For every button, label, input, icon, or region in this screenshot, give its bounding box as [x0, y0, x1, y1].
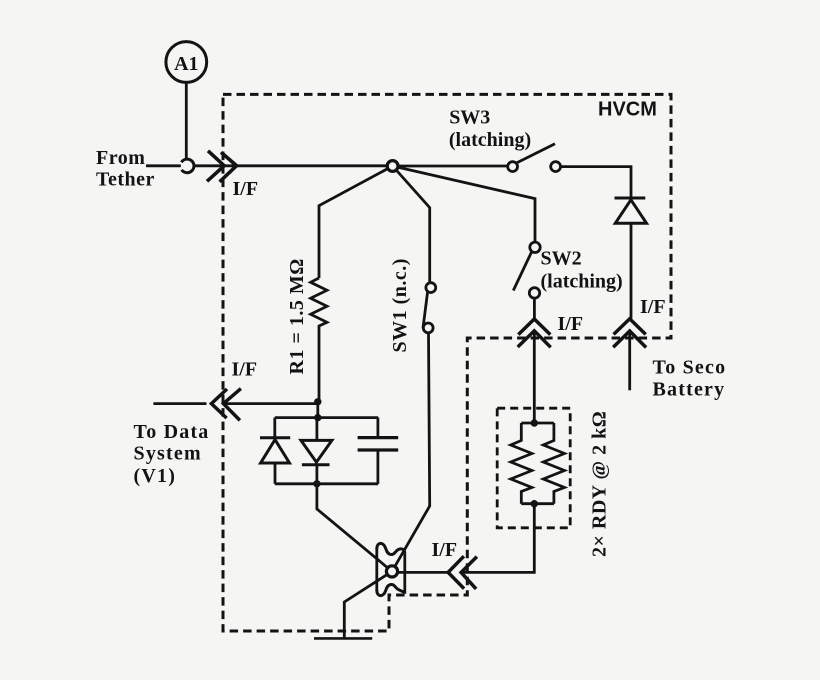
wire: tether line into node N1	[194, 164, 388, 167]
svg-text:I/F: I/F	[232, 359, 258, 381]
svg-text:I/F: I/F	[233, 178, 259, 200]
switch SW1 top contact	[426, 283, 436, 293]
wire: clamp network to pyro contact	[317, 484, 392, 572]
clamp network bottom bar	[275, 482, 378, 485]
node N1 circle	[387, 161, 398, 172]
svg-text:(V1): (V1)	[134, 465, 177, 487]
wire: RDY to bottom I/F	[463, 504, 534, 573]
svg-text:A1: A1	[174, 53, 198, 75]
junction dot: clamp bottom	[313, 480, 320, 487]
switch SW2 bottom contact	[529, 288, 539, 298]
diode D2 branch stub bottom	[274, 463, 277, 484]
wire: battery stub	[628, 331, 631, 390]
junction dot: RDY top	[531, 419, 538, 426]
switch SW2 top contact	[530, 242, 540, 252]
svg-text:I/F: I/F	[640, 296, 666, 318]
pyro device body left wall	[375, 548, 378, 591]
diode D2 branch stub top	[273, 418, 276, 438]
svg-text:SW1 (n.c.): SW1 (n.c.)	[389, 258, 411, 352]
dashed HVCM enclosure box	[223, 94, 671, 631]
pyro contact circle	[386, 566, 397, 577]
RDY resistor pair top bar	[521, 422, 554, 425]
svg-text:Battery: Battery	[653, 379, 726, 401]
diode D3 branch stub top	[315, 418, 318, 441]
node: tether tap loop	[181, 159, 194, 173]
pyro device body right wall	[403, 553, 406, 593]
I/F chevron (SW2 feed)	[518, 319, 550, 335]
capacitor C1 top plate	[358, 436, 399, 439]
wire: R1 node to clamp network	[316, 402, 319, 418]
svg-text:R1 = 1.5 MΩ: R1 = 1.5 MΩ	[286, 258, 308, 374]
junction dot: clamp top	[314, 414, 321, 421]
switch SW1 bottom contact	[423, 323, 433, 333]
wire: SW1 branch from node N1	[393, 166, 430, 283]
svg-text:To Data: To Data	[134, 421, 210, 443]
wire: node N1 to SW2	[393, 166, 535, 242]
svg-text:(latching): (latching)	[541, 271, 623, 293]
svg-text:SW2: SW2	[541, 248, 582, 270]
capacitor C1 top stub	[376, 418, 379, 438]
svg-text:HVCM: HVCM	[598, 99, 657, 121]
switch SW1 arm	[423, 292, 428, 328]
capacitor C1 bottom stub	[376, 450, 379, 484]
resistor R1	[311, 278, 327, 402]
svg-text:System: System	[134, 443, 202, 465]
switch SW3 left contact	[508, 162, 518, 172]
diode D3 branch stub bottom	[315, 465, 318, 484]
diode D1 triangle	[615, 200, 646, 223]
resistor RDY right	[543, 423, 564, 504]
pyro device body bottom scallop	[377, 584, 405, 595]
ammeter A1	[166, 42, 207, 83]
I/F chevron (to data system)	[211, 389, 227, 418]
resistor RDY left	[511, 423, 532, 504]
wire: SW1 down to pyro contact	[392, 333, 430, 572]
svg-text:(latching): (latching)	[449, 129, 531, 151]
svg-text:2× RDY @ 2 kΩ: 2× RDY @ 2 kΩ	[589, 411, 611, 557]
wire: from tether horizontal lead	[146, 164, 181, 167]
switch SW3 arm	[517, 144, 555, 163]
svg-text:Tether: Tether	[96, 168, 155, 190]
capacitor C1 bottom plate	[358, 448, 399, 451]
wire: SW3 to diode D1	[561, 167, 632, 197]
I/F chevron (bottom, to pyro)	[448, 556, 464, 589]
wire: data I/F into R1 node	[223, 402, 317, 405]
RDY resistor pair bottom bar	[521, 502, 554, 505]
I/F chevron (tether feed)	[207, 151, 224, 182]
diode D2 triangle	[261, 440, 290, 463]
I/F chevron (to battery)	[614, 319, 646, 335]
diode D3 triangle	[301, 440, 332, 462]
clamp network top bar	[275, 416, 378, 419]
diode D3 cathode bar	[302, 463, 330, 466]
svg-text:I/F: I/F	[558, 313, 584, 335]
svg-text:I/F: I/F	[432, 539, 458, 561]
svg-text:From: From	[96, 147, 145, 169]
dashed box around RDY resistors	[497, 408, 570, 528]
wire: I/F to RDY resistors	[533, 331, 536, 423]
wire: diode D1 to battery I/F	[630, 223, 633, 318]
pyro device body top scallop	[377, 543, 405, 554]
wire: node N1 to R1	[319, 166, 393, 278]
wire: I/F to pyro contact	[394, 571, 448, 574]
diode D1 cathode bar	[615, 197, 646, 200]
ground bar	[314, 637, 372, 640]
wire: data I/F horizontal	[153, 402, 206, 405]
switch SW2 arm	[513, 252, 531, 291]
junction dot: RDY bottom	[531, 500, 538, 507]
switch SW3 right contact	[551, 162, 561, 172]
wire: pyro contact to ground	[344, 571, 392, 638]
wire: SW2 to I/F	[533, 298, 536, 319]
diode D2 cathode bar	[260, 436, 290, 439]
junction dot: R1 / data I/F	[314, 398, 321, 405]
svg-text:SW3: SW3	[449, 107, 490, 129]
wire: node N1 to SW3	[397, 165, 508, 168]
svg-text:To Seco: To Seco	[653, 356, 727, 378]
wire: A1 meter lead	[185, 83, 188, 159]
